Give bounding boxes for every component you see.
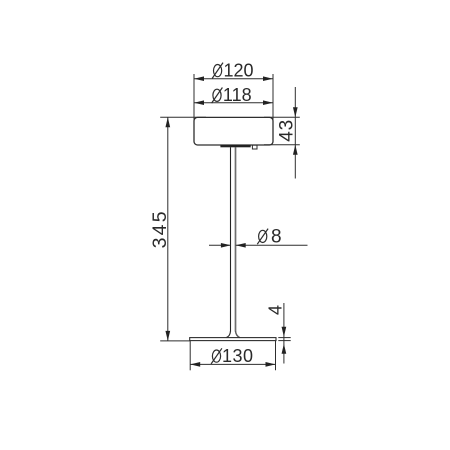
pole right line — [235, 147, 237, 331]
dia130 dim line — [190, 363, 275, 365]
pole flare left — [226, 331, 230, 338]
dia130 right arrow — [266, 362, 276, 367]
pole flare right — [236, 331, 240, 338]
extension line left of head (dia120/dia118) — [193, 74, 195, 127]
dia120 left arrow — [194, 76, 204, 81]
4 top arrow (outside, pointing down) — [282, 327, 287, 337]
dia118 left arrow — [194, 100, 204, 105]
svg-text:4: 4 — [266, 305, 286, 315]
345 bottom arrow — [165, 331, 170, 341]
345 bottom extension line — [160, 340, 190, 342]
base plate — [190, 338, 276, 341]
lamp head outline — [194, 117, 273, 145]
dia8 dim line right — [236, 244, 308, 246]
345 top extension line — [160, 116, 206, 118]
43 bottom extension line — [264, 144, 300, 146]
svg-text:130: 130 — [222, 346, 254, 366]
head bottom dark bar — [220, 145, 250, 147]
dia8 dim line left — [209, 244, 231, 246]
dia130 left arrow — [190, 362, 200, 367]
43 top arrow (outside, pointing down) — [293, 107, 298, 117]
dia8 left arrow (pointing right) — [221, 243, 231, 248]
345 top arrow — [165, 117, 170, 127]
dim line dia118 — [194, 102, 273, 104]
dim line dia120 — [194, 78, 273, 80]
4 top extension line — [278, 337, 290, 339]
svg-text:345: 345 — [149, 209, 171, 248]
43 bottom arrow (outside, pointing up) — [293, 145, 298, 155]
svg-text:118: 118 — [223, 85, 252, 105]
43 dim line — [294, 87, 296, 179]
dia120 right arrow — [263, 76, 273, 81]
dia118 right arrow — [263, 100, 273, 105]
4 bottom extension line — [278, 340, 290, 342]
dia symbol for 8 — [259, 230, 267, 242]
small notch on head bottom — [252, 145, 257, 149]
pole left line — [230, 147, 232, 331]
svg-text:43: 43 — [277, 119, 298, 142]
43 top extension line — [264, 116, 300, 118]
4 bottom arrow (outside, pointing up) — [282, 344, 287, 354]
dia symbol for 118 — [213, 89, 221, 101]
4 dim line vertical — [283, 303, 285, 364]
dia8 right arrow (pointing left) — [236, 243, 246, 248]
dia130 right extension line — [275, 341, 277, 370]
dia130 left extension line — [189, 341, 191, 370]
345 dim line — [167, 117, 169, 341]
svg-text:120: 120 — [224, 61, 254, 81]
dia symbol for 120 — [214, 65, 222, 77]
svg-text:8: 8 — [271, 226, 282, 247]
dia symbol for 130 — [212, 350, 220, 362]
extension line right of head (dia120/dia118) — [272, 74, 274, 127]
